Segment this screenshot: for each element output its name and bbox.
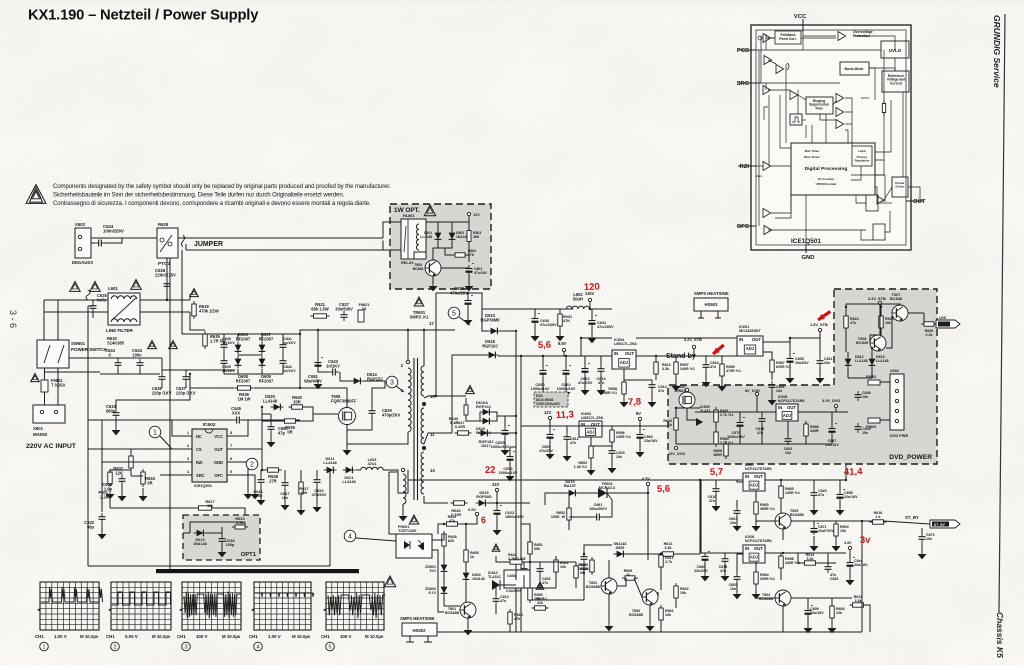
R655 xyxy=(721,361,723,379)
oscillogram 1 grid xyxy=(40,582,99,630)
wire xyxy=(115,419,117,428)
T805 BC848 xyxy=(425,260,441,276)
D615 diode in OPT1 xyxy=(194,532,207,534)
comparator A5 xyxy=(790,91,798,100)
wire xyxy=(140,299,190,301)
svg-text:10n: 10n xyxy=(730,521,736,525)
red arrow b xyxy=(818,311,830,320)
wire xyxy=(413,358,415,500)
R636 xyxy=(235,387,254,389)
R663 xyxy=(755,499,757,517)
power driver block xyxy=(892,177,908,197)
wire xyxy=(44,392,46,405)
terminal 6.5V xyxy=(646,482,649,485)
T607 BC848 xyxy=(892,305,908,321)
wire xyxy=(831,598,833,606)
svg-text:3: 3 xyxy=(187,457,189,461)
terminal 115V xyxy=(588,298,591,301)
wire xyxy=(715,443,717,445)
wire xyxy=(780,553,782,556)
L603 coil xyxy=(361,467,383,470)
wire xyxy=(675,430,677,444)
svg-text:22k: 22k xyxy=(537,601,544,605)
R666 xyxy=(805,421,807,439)
svg-text:1000u/16V: 1000u/16V xyxy=(531,387,550,391)
wires dvd top xyxy=(846,304,900,305)
C612 cap xyxy=(566,433,568,437)
wire xyxy=(649,605,651,624)
wire xyxy=(432,276,434,284)
ground xyxy=(675,382,677,386)
svg-text:100n: 100n xyxy=(254,494,263,498)
C638 cap xyxy=(221,535,223,539)
svg-text:BC848B: BC848B xyxy=(445,611,459,615)
ground xyxy=(109,490,111,494)
oscillogram 3 trace xyxy=(184,592,241,619)
svg-text:100u/500V: 100u/500V xyxy=(589,507,607,511)
svg-text:OUT: OUT xyxy=(754,546,763,551)
svg-text:22u/25V: 22u/25V xyxy=(694,569,708,573)
svg-text:7,8: 7,8 xyxy=(628,397,642,408)
safety symbol xyxy=(26,185,46,204)
svg-text:47u/50V: 47u/50V xyxy=(312,493,327,497)
terminal 3.3V_DVD xyxy=(834,404,837,407)
ground xyxy=(921,550,923,554)
svg-text:LL4148: LL4148 xyxy=(855,359,868,363)
svg-text:4: 4 xyxy=(257,645,260,651)
wire xyxy=(224,373,283,375)
wire xyxy=(584,356,586,365)
ground xyxy=(704,572,706,576)
wire xyxy=(845,328,847,352)
svg-text:68k 1.5W: 68k 1.5W xyxy=(311,306,329,311)
D613 diode xyxy=(871,356,873,369)
svg-text:OUT: OUT xyxy=(752,337,761,342)
connector X602 degauss xyxy=(75,228,91,258)
C605 cap xyxy=(736,573,738,577)
wire xyxy=(521,425,668,427)
D606 diode xyxy=(237,342,239,355)
wire xyxy=(542,356,544,367)
svg-text:5: 5 xyxy=(452,311,456,318)
svg-text:3 - 6: 3 - 6 xyxy=(8,310,18,328)
oscillogram 5 number xyxy=(326,642,335,651)
svg-text:2: 2 xyxy=(114,645,117,651)
wire xyxy=(44,299,108,301)
svg-text:JUMPER: JUMPER xyxy=(194,241,223,248)
ZD602 diode xyxy=(443,584,445,597)
svg-text:CH1: CH1 xyxy=(177,634,186,639)
terminal 1.8V_STB xyxy=(818,328,821,331)
svg-text:OPT1: OPT1 xyxy=(241,552,257,558)
svg-text:RF2007: RF2007 xyxy=(259,378,274,383)
wire xyxy=(523,575,525,588)
wire xyxy=(611,442,613,448)
svg-text:47n: 47n xyxy=(709,499,715,503)
svg-text:NB: NB xyxy=(580,571,586,575)
C644 cap xyxy=(117,359,119,363)
wire xyxy=(755,491,757,502)
R609 xyxy=(591,557,593,575)
fuse F9621 xyxy=(358,310,364,322)
svg-text:IN: IN xyxy=(614,351,618,356)
svg-text:1000u/16V: 1000u/16V xyxy=(499,471,518,475)
svg-text:UPOS/Counter: UPOS/Counter xyxy=(816,182,838,186)
TH601 symbol xyxy=(598,488,607,498)
svg-text:9V1: 9V1 xyxy=(430,569,436,573)
svg-text:D617: D617 xyxy=(481,444,490,448)
ground xyxy=(509,472,511,476)
svg-text:47n: 47n xyxy=(570,441,576,445)
svg-text:RGP30D: RGP30D xyxy=(476,495,492,499)
internal lines xyxy=(802,32,804,50)
C613 cap xyxy=(600,365,602,369)
RZI input amp xyxy=(763,162,771,171)
C658 cap xyxy=(542,367,544,371)
wire xyxy=(261,369,263,374)
svg-text:OFC: OFC xyxy=(737,224,750,230)
svg-text:ICE1Q501: ICE1Q501 xyxy=(194,484,213,488)
wire xyxy=(906,200,924,202)
TH610 20N03 xyxy=(679,392,695,408)
svg-text:12V_DVD: 12V_DVD xyxy=(668,452,685,456)
wire xyxy=(443,546,445,562)
op-amp comparator A1 xyxy=(763,34,771,43)
sec terminal xyxy=(422,446,425,449)
terminal 12V_DVD xyxy=(674,446,677,449)
wire xyxy=(178,435,192,437)
svg-text:Latch: Latch xyxy=(858,149,866,153)
wire xyxy=(580,338,582,356)
wire xyxy=(178,474,192,476)
C636 cap xyxy=(161,373,163,377)
C801 cap xyxy=(468,265,470,269)
svg-text:M 10.0µs: M 10.0µs xyxy=(222,634,241,639)
svg-text:L601: L601 xyxy=(108,286,118,291)
R615 xyxy=(850,604,867,606)
svg-text:Stand-by: Stand-by xyxy=(666,353,696,360)
X602 pin 4 xyxy=(895,409,898,412)
C602 cap xyxy=(787,435,789,439)
safety symbol xyxy=(70,282,80,292)
wire xyxy=(623,369,625,382)
IC602 left wires xyxy=(102,420,178,436)
D621 diode xyxy=(343,469,356,471)
svg-text:3.3k: 3.3k xyxy=(806,557,814,561)
R649 xyxy=(465,402,467,418)
svg-text:22uF/10V: 22uF/10V xyxy=(818,529,834,533)
svg-text:10k: 10k xyxy=(680,591,687,595)
wire xyxy=(739,429,741,444)
X602 pin 3 xyxy=(895,399,898,402)
svg-text:47p: 47p xyxy=(278,430,286,435)
R626 xyxy=(921,323,937,325)
svg-text:Blne Timer: Blne Timer xyxy=(804,155,820,159)
R625 xyxy=(880,313,882,331)
bias winding terminal xyxy=(401,468,404,471)
D609 diode xyxy=(261,356,263,369)
D611 diode xyxy=(324,469,337,471)
1W OPT wires xyxy=(426,221,469,223)
wire xyxy=(845,304,847,316)
svg-text:6.5V: 6.5V xyxy=(642,477,650,481)
safety symbol xyxy=(424,205,435,216)
C623 cap xyxy=(583,553,585,557)
L601 coil top xyxy=(111,296,137,299)
svg-text:10n: 10n xyxy=(616,455,622,459)
C614 cap xyxy=(651,381,653,385)
svg-text:10k: 10k xyxy=(560,565,567,569)
junction dots xyxy=(299,333,301,335)
wire xyxy=(227,435,242,437)
svg-text:13: 13 xyxy=(430,468,435,473)
ground xyxy=(813,542,815,546)
R802 xyxy=(452,254,468,256)
wire xyxy=(224,333,283,335)
svg-text:GND: GND xyxy=(801,255,814,261)
ground xyxy=(115,426,117,430)
wire xyxy=(549,441,551,452)
svg-text:OUT: OUT xyxy=(754,474,763,479)
wire xyxy=(738,165,756,167)
wire xyxy=(260,470,262,476)
C616 cap xyxy=(705,361,707,365)
ground xyxy=(316,503,318,507)
R624 xyxy=(845,313,847,331)
svg-text:RF2007: RF2007 xyxy=(259,336,274,341)
wire xyxy=(465,582,467,602)
ground xyxy=(849,576,851,580)
page edge line xyxy=(999,14,1005,612)
svg-text:BC848B: BC848B xyxy=(790,513,804,517)
wire xyxy=(736,517,738,524)
wire xyxy=(600,375,602,388)
ground xyxy=(317,380,319,384)
svg-text:8V: 8V xyxy=(636,411,641,416)
overvoltage protection comparator xyxy=(838,32,846,41)
R665 xyxy=(780,483,782,501)
svg-text:7: 7 xyxy=(230,444,232,448)
D614 diode xyxy=(351,380,364,382)
comparator A6 xyxy=(836,94,844,103)
svg-text:365R %1: 365R %1 xyxy=(760,507,775,511)
wire xyxy=(756,396,758,412)
wire xyxy=(300,470,302,482)
wire xyxy=(581,337,612,339)
svg-text:ADJ: ADJ xyxy=(783,413,791,418)
wire xyxy=(771,356,773,360)
wire xyxy=(142,488,144,494)
R801 xyxy=(109,469,111,487)
wire xyxy=(530,561,576,563)
C646 cap xyxy=(260,476,262,480)
wire bottom bus from OPT1 xyxy=(88,565,330,567)
R646 xyxy=(451,502,468,504)
svg-text:1n/1KV: 1n/1KV xyxy=(283,369,296,373)
svg-text:2: 2 xyxy=(187,444,189,448)
thick bottom bar xyxy=(156,569,359,573)
C659 cap xyxy=(549,431,551,435)
IC608 NCP1117DTARK xyxy=(776,404,798,421)
wire xyxy=(849,569,851,578)
R601 xyxy=(660,605,662,623)
svg-text:2.7k: 2.7k xyxy=(665,560,673,564)
ground xyxy=(402,512,404,516)
svg-text:C: C xyxy=(109,352,112,357)
ground xyxy=(221,548,223,552)
C811 cap xyxy=(819,357,821,361)
svg-text:FQPF3N80FF: FQPF3N80FF xyxy=(331,398,357,403)
svg-text:1.3k %1: 1.3k %1 xyxy=(574,465,587,469)
svg-text:10k: 10k xyxy=(840,529,847,533)
wire xyxy=(443,574,445,584)
svg-text:MC33269DT: MC33269DT xyxy=(739,329,761,333)
svg-text:Sicherheitsbauteile im Sinn de: Sicherheitsbauteile im Sinn der sicherhe… xyxy=(53,192,345,199)
TR601 primary coil xyxy=(408,368,411,432)
wire xyxy=(408,479,846,481)
svg-text:50uH: 50uH xyxy=(573,296,583,301)
IC607 NCP1117DTARK xyxy=(743,473,765,491)
R653 xyxy=(575,563,577,581)
svg-text:47u1: 47u1 xyxy=(368,462,378,466)
wire xyxy=(721,356,723,364)
wire xyxy=(520,356,522,632)
svg-text:NC: NC xyxy=(196,434,202,439)
svg-text:20N03: 20N03 xyxy=(675,389,686,393)
ground xyxy=(831,624,833,628)
fuse F9602 xyxy=(868,380,880,385)
wire xyxy=(69,357,162,359)
svg-text:1n/1KV: 1n/1KV xyxy=(222,341,235,345)
C624 cap xyxy=(95,242,99,244)
wire xyxy=(738,225,756,227)
svg-text:TCET1100: TCET1100 xyxy=(398,529,416,533)
C656 cap xyxy=(509,453,511,457)
wire xyxy=(736,583,738,592)
C806 cap xyxy=(771,381,773,385)
wire xyxy=(496,492,498,503)
C667 cap xyxy=(831,425,833,429)
svg-text:R629: R629 xyxy=(158,222,169,227)
svg-text:3.3k: 3.3k xyxy=(662,367,670,371)
C639 cap xyxy=(223,357,225,361)
C631 cap xyxy=(591,317,593,321)
svg-text:10k: 10k xyxy=(836,611,843,615)
gray module DVD_POWER box xyxy=(668,289,937,464)
wire xyxy=(704,563,706,574)
wire xyxy=(584,375,586,388)
node 4 xyxy=(344,530,356,542)
D605 diode xyxy=(614,553,627,555)
svg-text:47n: 47n xyxy=(542,581,548,585)
wire xyxy=(43,300,45,340)
wire xyxy=(693,349,695,356)
svg-text:36K: 36K xyxy=(473,235,480,239)
wire xyxy=(260,486,262,498)
wire B+ rail xyxy=(283,330,455,334)
wire xyxy=(861,521,863,632)
wire xyxy=(761,412,763,415)
svg-text:RL801: RL801 xyxy=(403,214,415,218)
wire xyxy=(238,354,262,356)
X602 pin 1 xyxy=(895,379,898,382)
wire xyxy=(227,461,242,463)
wire xyxy=(465,534,467,550)
svg-text:220p /1KV: 220p /1KV xyxy=(152,390,172,395)
ground xyxy=(121,492,123,496)
svg-text:3.2V_STB: 3.2V_STB xyxy=(684,338,702,342)
TR601 aux coil xyxy=(421,366,424,396)
svg-text:RF2007: RF2007 xyxy=(236,378,251,383)
wire xyxy=(178,448,192,450)
ground xyxy=(432,282,434,286)
T602 BC848B xyxy=(601,578,617,594)
svg-text:3.3V_DVD: 3.3V_DVD xyxy=(822,399,840,403)
svg-text:ST_BY: ST_BY xyxy=(905,515,919,520)
svg-text:39k: 39k xyxy=(534,547,541,551)
wire xyxy=(181,250,183,334)
svg-text:XXX: XXX xyxy=(232,410,240,415)
T600 BC848B xyxy=(642,589,658,605)
C620 cap xyxy=(813,489,815,493)
svg-text:ADJ: ADJ xyxy=(750,482,758,487)
terminal 3.2V_STB xyxy=(692,345,695,348)
wire xyxy=(237,369,239,374)
svg-text:Regulation: Regulation xyxy=(855,158,870,162)
wire xyxy=(611,457,613,466)
wire xyxy=(498,355,612,357)
safety symbol xyxy=(169,341,178,349)
wire xyxy=(715,495,717,504)
wire xyxy=(559,309,561,314)
D802 diode xyxy=(451,230,453,243)
svg-text:Time: Time xyxy=(815,106,823,110)
wire xyxy=(185,370,187,373)
ground xyxy=(839,506,841,510)
wire xyxy=(468,275,470,284)
ground xyxy=(807,624,809,628)
svg-text:SMPS_K1: SMPS_K1 xyxy=(410,314,430,319)
C608 cap xyxy=(121,475,123,479)
D610 diode xyxy=(488,330,501,332)
svg-text:42k: 42k xyxy=(207,504,214,508)
wire xyxy=(771,391,773,398)
IC603 LM317L xyxy=(579,421,602,437)
reference voltage and current block xyxy=(882,71,909,92)
C662 cap xyxy=(584,365,586,369)
wire xyxy=(185,244,187,250)
svg-text:BC848B: BC848B xyxy=(586,585,600,589)
wire xyxy=(566,426,568,433)
svg-text:M 10.0µs: M 10.0µs xyxy=(152,634,171,639)
wire xyxy=(639,426,641,431)
svg-text:Contrassegno di sicurezza. I c: Contrassegno di sicurezza. I componenti … xyxy=(53,200,371,207)
wire xyxy=(109,488,111,492)
svg-text:LL4148: LL4148 xyxy=(323,461,337,465)
svg-text:1N4148: 1N4148 xyxy=(472,577,485,581)
svg-text:10n: 10n xyxy=(730,587,736,591)
wire xyxy=(608,594,610,624)
svg-text:CH1: CH1 xyxy=(249,634,258,639)
safety symbol xyxy=(414,297,424,306)
C642 cap xyxy=(282,357,284,361)
svg-text:1.00 V: 1.00 V xyxy=(268,634,281,639)
C664 cap xyxy=(639,431,641,435)
wire xyxy=(529,532,531,542)
svg-text:5: 5 xyxy=(230,470,232,474)
fuse F9601 xyxy=(41,380,48,392)
svg-text:LED: LED xyxy=(939,316,947,320)
